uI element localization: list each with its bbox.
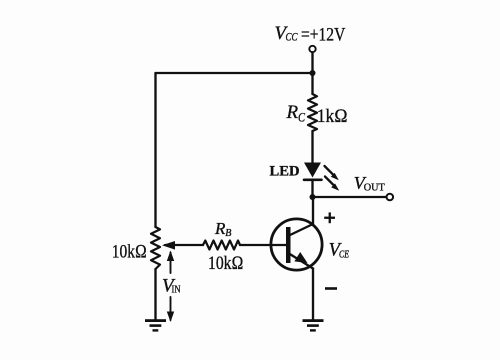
svg-text:IN: IN <box>172 284 181 295</box>
svg-text:10kΩ: 10kΩ <box>208 253 244 274</box>
svg-text:CC: CC <box>286 30 299 44</box>
svg-text:CE: CE <box>339 250 349 261</box>
svg-text:1kΩ: 1kΩ <box>317 106 348 127</box>
svg-text:LED: LED <box>270 164 300 180</box>
svg-text:R: R <box>286 102 299 123</box>
svg-text:B: B <box>225 228 231 239</box>
svg-text:OUT: OUT <box>364 182 385 194</box>
svg-text:=+12V: =+12V <box>301 25 346 46</box>
svg-text:10kΩ: 10kΩ <box>112 241 147 262</box>
svg-text:C: C <box>298 110 305 125</box>
svg-text:R: R <box>214 219 226 238</box>
